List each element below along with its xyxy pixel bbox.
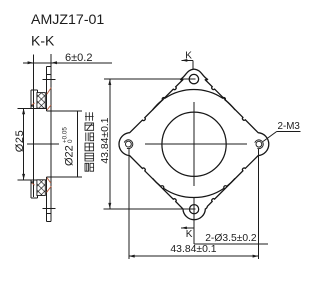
- svg-text:K: K: [185, 51, 192, 62]
- svg-text:K-K: K-K: [31, 33, 55, 49]
- svg-text:Ø25: Ø25: [14, 130, 26, 153]
- svg-text:2-M3: 2-M3: [278, 121, 301, 132]
- svg-text:0: 0: [67, 139, 74, 143]
- svg-text:AMJZ17-01: AMJZ17-01: [31, 12, 104, 28]
- svg-text:43.84±0.1: 43.84±0.1: [170, 244, 216, 255]
- svg-text:2-Ø3.5±0.2: 2-Ø3.5±0.2: [205, 233, 257, 244]
- svg-text:43.84±0.1: 43.84±0.1: [100, 117, 111, 163]
- svg-text:Ø22: Ø22: [64, 145, 76, 166]
- svg-text:6±0.2: 6±0.2: [65, 52, 92, 64]
- svg-text:K: K: [186, 229, 193, 240]
